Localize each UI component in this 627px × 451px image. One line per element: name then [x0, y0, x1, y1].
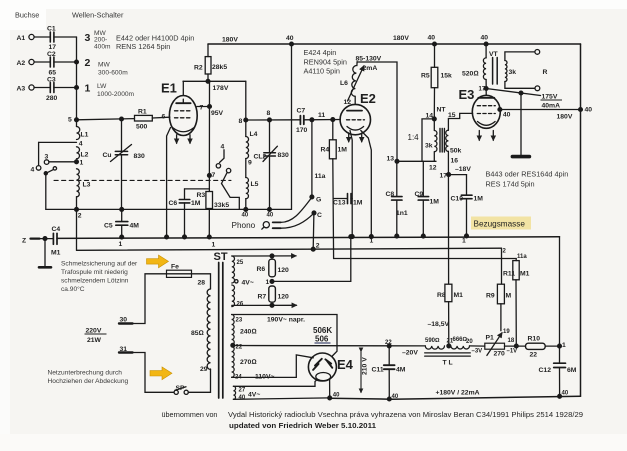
svg-text:31: 31	[120, 346, 128, 353]
wire Z to C4	[40, 238, 54, 240]
svg-text:E3: E3	[459, 87, 475, 102]
svg-text:21W: 21W	[87, 337, 102, 344]
svg-text:220V: 220V	[86, 328, 102, 335]
wire P1 to R10	[505, 345, 526, 347]
svg-text:1: 1	[85, 83, 91, 95]
svg-text:65: 65	[49, 70, 57, 77]
capacitor C11	[384, 346, 395, 401]
svg-text:R4: R4	[321, 147, 330, 154]
transformer VT core	[493, 58, 498, 85]
svg-text:RES 174d 5pin: RES 174d 5pin	[486, 180, 535, 189]
svg-text:E1: E1	[161, 81, 177, 96]
svg-text:R2: R2	[194, 65, 203, 72]
node 18 R11 junction	[514, 344, 518, 348]
terminal A1	[29, 34, 50, 39]
terminal A2	[29, 59, 50, 64]
svg-text:29: 29	[200, 366, 208, 373]
wire 27 bottom to rail	[233, 398, 329, 399]
svg-text:500: 500	[136, 124, 148, 131]
svg-text:7: 7	[212, 172, 216, 179]
capacitor C6	[179, 189, 209, 239]
winding 23-22 (190V)	[232, 315, 235, 345]
resistor R1	[135, 115, 170, 121]
svg-text:C7: C7	[297, 108, 306, 115]
svg-text:6M: 6M	[567, 367, 577, 374]
wire E2 pin right down	[361, 131, 372, 237]
svg-text:L5: L5	[251, 181, 259, 188]
capacitor C8	[392, 161, 402, 238]
wire 27 top to E4 filament	[233, 380, 316, 386]
svg-text:Netzunterbrechung durch: Netzunterbrechung durch	[48, 370, 123, 377]
wire C down to node 2	[312, 213, 315, 249]
svg-text:5: 5	[68, 117, 72, 124]
svg-text:Wellen-Schalter: Wellen-Schalter	[72, 11, 124, 20]
svg-text:L1: L1	[81, 132, 89, 139]
svg-text:Vydal Historický radioclub Vse: Vydal Historický radioclub Vsechna práva…	[228, 410, 583, 419]
wire TL to P1	[470, 345, 485, 347]
node 2 dot	[75, 208, 79, 212]
svg-text:300-600m: 300-600m	[98, 70, 128, 77]
svg-text:110V~: 110V~	[255, 374, 274, 381]
svg-text:8: 8	[239, 118, 243, 125]
svg-text:40: 40	[428, 35, 436, 42]
svg-text:C4: C4	[52, 226, 61, 233]
svg-text:Cu: Cu	[103, 152, 112, 159]
svg-text:Phono: Phono	[232, 221, 256, 230]
svg-text:18: 18	[508, 338, 515, 344]
svg-text:M1: M1	[51, 250, 61, 257]
svg-text:Hochziehen der Abdeckung: Hochziehen der Abdeckung	[48, 378, 129, 385]
svg-text:85-130V: 85-130V	[356, 56, 382, 63]
svg-text:1: 1	[462, 238, 466, 245]
node pin7	[208, 105, 212, 109]
svg-text:15k: 15k	[441, 73, 453, 80]
svg-text:40mA: 40mA	[542, 103, 561, 110]
transformer NT core	[440, 129, 444, 153]
node Z junction	[43, 237, 47, 241]
svg-text:1:4: 1:4	[408, 133, 420, 142]
node R4 top	[331, 118, 335, 122]
svg-text:270: 270	[494, 351, 506, 358]
svg-text:C8: C8	[386, 191, 395, 198]
tube E2	[340, 96, 370, 142]
wire NT secondary top to E3 grid	[448, 113, 472, 130]
svg-text:1: 1	[119, 241, 123, 248]
node 7	[208, 174, 212, 178]
wire 24 to E4 anode left	[232, 355, 314, 378]
bottom rail +180V	[330, 396, 581, 399]
svg-text:830: 830	[134, 153, 146, 160]
svg-text:R6: R6	[257, 266, 266, 273]
wire grid line node8-11	[246, 119, 340, 122]
wire NT secondary bottom down	[447, 151, 449, 284]
choke TL core	[425, 353, 471, 356]
node Cu tap	[120, 117, 124, 121]
wire node5 to R1	[77, 119, 135, 120]
node 2 on bus B	[311, 247, 315, 251]
svg-text:C10: C10	[451, 196, 464, 203]
svg-text:C13: C13	[333, 200, 346, 207]
bus C corner down to R11	[515, 259, 517, 261]
capacitor C12	[554, 346, 566, 398]
svg-text:–18V: –18V	[455, 166, 471, 173]
svg-text:SP: SP	[176, 385, 186, 392]
svg-text:2: 2	[316, 243, 320, 250]
svg-text:VT: VT	[489, 51, 499, 58]
wire 31 to SP	[133, 353, 174, 393]
svg-text:Z: Z	[22, 238, 26, 245]
wire node10 horizontal	[46, 208, 292, 210]
inductor L6 with arrow	[348, 62, 364, 101]
phono jack	[262, 222, 281, 230]
svg-text:C11: C11	[372, 367, 384, 374]
wire L5 bottom	[245, 199, 247, 210]
svg-text:12: 12	[344, 99, 352, 106]
wire vertical under R2	[208, 81, 210, 237]
wire node10 corner up to rail	[290, 42, 294, 209]
svg-text:ST: ST	[214, 251, 228, 263]
switch S2 contact hook	[216, 150, 231, 184]
svg-text:1: 1	[370, 238, 374, 245]
transformer NT primary	[434, 119, 437, 161]
capacitor C9	[418, 161, 428, 238]
svg-text:240Ω: 240Ω	[240, 329, 257, 336]
svg-text:830: 830	[278, 152, 290, 159]
resistor R5	[431, 44, 438, 119]
wire G curve	[281, 197, 312, 222]
fuse Fe	[167, 270, 192, 277]
svg-text:50k: 50k	[450, 148, 462, 155]
choke TL winding 2	[451, 346, 470, 349]
svg-text:22: 22	[385, 340, 392, 346]
svg-text:E2: E2	[360, 91, 376, 106]
choke TL winding 1	[425, 346, 444, 349]
inductor L2	[77, 147, 80, 159]
node rail R5	[433, 42, 437, 46]
svg-text:11: 11	[318, 112, 325, 119]
wire secondary top to jack	[505, 52, 535, 61]
svg-text:CL2: CL2	[254, 154, 267, 161]
svg-text:4: 4	[31, 167, 35, 174]
wire E1 cathode down	[167, 128, 171, 238]
svg-text:P1: P1	[486, 335, 495, 342]
svg-text:17: 17	[49, 44, 57, 51]
capacitor C10	[449, 175, 472, 238]
bus A ground wire	[57, 237, 560, 239]
svg-text:R11: R11	[503, 271, 515, 278]
svg-text:C3: C3	[47, 77, 56, 84]
wire 23 to E4 anode right	[232, 315, 337, 357]
bias line -20V	[233, 345, 425, 347]
node 8	[244, 118, 248, 122]
Bezugsmasse highlight	[471, 217, 531, 230]
svg-text:17: 17	[440, 173, 448, 180]
capacitor C4	[53, 233, 57, 244]
svg-text:12: 12	[429, 165, 437, 172]
svg-text:–18,5V: –18,5V	[428, 321, 450, 328]
node 21 R8 junction	[447, 344, 451, 348]
svg-text:6: 6	[162, 114, 166, 121]
terminal Z	[31, 238, 40, 240]
svg-text:REN904 5pin: REN904 5pin	[304, 58, 347, 67]
svg-text:M: M	[506, 293, 512, 300]
node R2 bottom	[206, 79, 210, 83]
node E4 rail	[328, 396, 332, 400]
svg-text:3: 3	[85, 32, 91, 44]
capacitor Cu (tuning)	[111, 119, 132, 209]
node E2 cathode ground	[350, 235, 354, 239]
svg-text:1: 1	[562, 342, 566, 349]
wire G up to node 11	[311, 120, 313, 197]
capacitor C2	[50, 57, 76, 67]
wire 178V corner down to node 8	[245, 81, 247, 120]
node junction A2	[75, 60, 79, 64]
svg-text:3k: 3k	[425, 143, 433, 150]
svg-text:NT: NT	[437, 107, 447, 114]
svg-text:–20V: –20V	[402, 350, 418, 357]
transformer ST primary winding	[207, 289, 210, 369]
wire fuse to ST primary top 28	[192, 274, 211, 289]
svg-text:280: 280	[46, 95, 58, 102]
label 175V 40mA	[541, 94, 563, 110]
inductor L4	[246, 120, 249, 159]
bus A corner down right	[559, 237, 561, 346]
svg-text:R3: R3	[197, 192, 206, 199]
svg-text:R5: R5	[421, 73, 430, 80]
ground M1	[39, 239, 51, 268]
potentiometer P1	[485, 333, 505, 356]
svg-text:4V~: 4V~	[248, 392, 260, 399]
svg-text:9: 9	[248, 160, 252, 167]
wire C curve	[281, 213, 314, 228]
node 5	[75, 118, 79, 122]
resistor R9	[497, 284, 504, 304]
svg-text:E424 4pin: E424 4pin	[304, 48, 337, 57]
terminal A3	[29, 85, 50, 90]
svg-text:C5: C5	[104, 223, 113, 230]
capacitor C13	[334, 194, 353, 204]
svg-text:1M: 1M	[338, 147, 348, 154]
node 9 CL2 top	[268, 118, 272, 122]
node 14	[432, 117, 436, 121]
svg-text:1M: 1M	[430, 199, 440, 206]
svg-text:170: 170	[296, 127, 308, 134]
terminal C	[312, 211, 316, 215]
node 1 tap	[49, 160, 79, 164]
node R3 ground	[207, 235, 211, 239]
svg-text:Bezugsmasse: Bezugsmasse	[474, 220, 526, 229]
node E3 top cap	[484, 87, 488, 91]
svg-text:26: 26	[237, 302, 244, 308]
svg-text:190V~ napr.: 190V~ napr.	[267, 317, 305, 324]
svg-text:C: C	[317, 212, 322, 219]
resistor R4	[329, 120, 336, 259]
svg-text:2: 2	[85, 57, 91, 69]
tube E1	[169, 81, 197, 143]
wire E2 cathode left down	[350, 131, 352, 237]
speaker terminal bottom	[535, 86, 540, 91]
resistor R6	[269, 259, 276, 277]
svg-text:180V: 180V	[557, 114, 573, 121]
node 1 right	[558, 344, 562, 348]
node rail VT	[484, 42, 488, 46]
transformer VT primary	[483, 44, 486, 89]
winding 25-26 (4V)	[232, 256, 235, 307]
wire S2 pole to L5 bottom	[222, 184, 240, 210]
svg-text:R8: R8	[437, 292, 446, 299]
wire secondary bottom to jack	[505, 82, 535, 89]
svg-text:17: 17	[479, 87, 486, 93]
svg-text:7: 7	[200, 105, 204, 112]
terminal 31	[119, 351, 133, 353]
capacitor C1	[50, 32, 76, 42]
svg-text:L4: L4	[250, 131, 258, 138]
switch blade S1	[44, 167, 56, 210]
terminal 4V tap	[235, 280, 238, 283]
svg-text:4: 4	[79, 141, 83, 148]
svg-text:120: 120	[278, 294, 290, 301]
svg-text:M1: M1	[520, 271, 530, 278]
svg-text:24: 24	[235, 375, 242, 381]
svg-text:C9: C9	[415, 191, 424, 198]
svg-text:C1: C1	[47, 26, 56, 33]
svg-text:T L: T L	[443, 360, 453, 367]
wire 180V top rail	[208, 43, 581, 45]
svg-text:8: 8	[267, 110, 271, 117]
svg-text:R10: R10	[528, 336, 541, 343]
svg-text:200-: 200-	[94, 37, 107, 44]
node junction A3	[75, 86, 79, 90]
svg-text:A4110 5pin: A4110 5pin	[304, 67, 340, 76]
resistor R10	[526, 343, 546, 349]
svg-text:28k5: 28k5	[212, 64, 227, 71]
terminal 30	[119, 322, 133, 324]
wire E3 anode 180V line	[498, 108, 582, 112]
node 9 junction	[245, 159, 247, 178]
svg-text:180V: 180V	[393, 35, 409, 42]
svg-text:40: 40	[286, 35, 294, 42]
svg-text:1: 1	[212, 242, 216, 249]
svg-text:updated von Friedrich Weber 5: updated von Friedrich Weber 5.10.2011	[229, 421, 376, 430]
svg-text:4M: 4M	[130, 223, 140, 230]
bus B wire	[77, 248, 502, 250]
speaker terminal top	[535, 50, 540, 55]
svg-text:1: 1	[266, 279, 270, 286]
node E1 cathode ground	[165, 235, 169, 239]
capacitor C5	[116, 209, 128, 239]
svg-text:25: 25	[237, 260, 244, 266]
svg-text:40: 40	[392, 394, 399, 400]
svg-text:LW: LW	[97, 83, 107, 90]
wire L3 bottom to node 2	[76, 197, 78, 210]
dashed switch linkage	[54, 179, 231, 181]
svg-text:R: R	[543, 69, 548, 76]
svg-text:1: 1	[80, 160, 84, 167]
svg-text:40: 40	[503, 112, 511, 119]
svg-text:180V: 180V	[222, 37, 238, 44]
resistor R2	[205, 57, 211, 82]
wire L6 top 85-130V	[357, 62, 397, 162]
svg-text:175V: 175V	[542, 94, 558, 101]
wire heater top	[232, 254, 296, 258]
svg-text:ca.90°C: ca.90°C	[61, 285, 85, 293]
bus B corner down to R9	[501, 248, 503, 284]
node ground dot	[369, 235, 373, 239]
svg-text:40: 40	[242, 213, 249, 219]
svg-text:4: 4	[221, 144, 225, 151]
svg-text:2mA: 2mA	[363, 65, 378, 72]
svg-text:Fe: Fe	[171, 264, 179, 271]
svg-text:28: 28	[198, 280, 206, 287]
resistor R7	[269, 286, 276, 302]
node 22 tap	[231, 343, 235, 347]
svg-text:15: 15	[448, 112, 456, 119]
svg-text:11a: 11a	[315, 173, 326, 180]
svg-text:23: 23	[236, 318, 243, 324]
winding 27 (4V rectifier)	[233, 386, 235, 399]
node 17	[447, 173, 451, 177]
wire 178V anode line	[183, 80, 246, 82]
wire node2 down to bus B	[76, 209, 78, 250]
svg-text:95V: 95V	[211, 110, 224, 117]
svg-text:Trafospule mit niederig: Trafospule mit niederig	[61, 269, 128, 276]
capacitor C7	[300, 116, 303, 125]
node CL2 bottom dot	[268, 208, 272, 212]
inductor L3	[77, 169, 80, 197]
svg-text:M1: M1	[454, 292, 464, 299]
svg-text:–1V: –1V	[507, 349, 518, 355]
svg-text:40: 40	[585, 107, 593, 114]
wire R10 to node 1	[545, 345, 559, 347]
transformer NT secondary	[446, 130, 449, 151]
svg-text:schmelzendem Lötzinn: schmelzendem Lötzinn	[61, 278, 129, 285]
svg-text:Schmelzsicherung auf der: Schmelzsicherung auf der	[61, 261, 138, 268]
wire E3 ground stub	[512, 91, 529, 157]
svg-text:120: 120	[278, 267, 290, 274]
transformer ST core	[219, 263, 223, 399]
svg-text:30: 30	[120, 317, 128, 324]
transformer VT secondary	[505, 61, 507, 82]
svg-text:1M: 1M	[353, 200, 363, 207]
svg-text:40: 40	[333, 393, 340, 399]
yellow arrow fuse	[147, 255, 169, 268]
svg-text:3: 3	[45, 154, 49, 161]
svg-text:B443 oder RES164d 4pin: B443 oder RES164d 4pin	[486, 170, 569, 179]
wire 175V sloped	[486, 89, 540, 96]
wire rail corner to R2	[207, 44, 209, 57]
node 1 heater center	[270, 280, 274, 284]
svg-text:MW: MW	[98, 62, 110, 69]
svg-text:22: 22	[530, 352, 538, 359]
svg-text:4V~: 4V~	[242, 280, 254, 287]
svg-text:33k5: 33k5	[214, 202, 229, 209]
svg-text:L3: L3	[83, 182, 91, 189]
wire NT bracket	[422, 119, 434, 161]
yellow arrow SP	[150, 367, 172, 380]
svg-text:3k: 3k	[509, 69, 517, 76]
svg-text:1M: 1M	[191, 200, 201, 207]
svg-text:A1: A1	[17, 35, 26, 42]
wire heater bottom	[232, 303, 297, 307]
switch SP	[174, 387, 188, 395]
svg-text:178V: 178V	[213, 85, 229, 92]
svg-text:G: G	[316, 197, 321, 204]
node L5 bottom dot	[244, 208, 248, 212]
node 4 tap	[39, 142, 77, 165]
label 506K 506	[313, 326, 332, 344]
svg-text:R7: R7	[258, 294, 267, 301]
svg-text:C2: C2	[47, 51, 56, 58]
